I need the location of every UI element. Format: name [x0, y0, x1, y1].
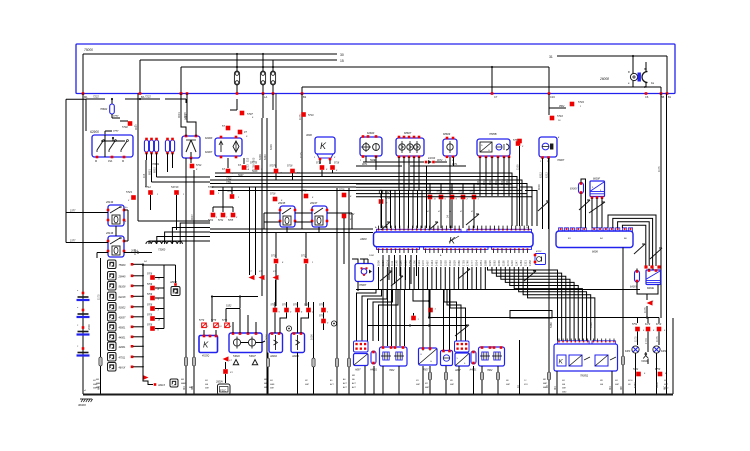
- svg-text:42001: 42001: [119, 346, 127, 349]
- svg-text:BB: BB: [661, 96, 665, 99]
- diode A6013: [143, 374, 179, 387]
- wire lamp grounds: [648, 318, 673, 394]
- svg-text:5734: 5734: [578, 100, 584, 104]
- svg-text:44001: 44001: [119, 337, 127, 340]
- connector 6479 r2: [645, 323, 655, 332]
- svg-text:56108: 56108: [119, 286, 127, 289]
- pin stubs col above: [383, 255, 417, 284]
- bus 325: [367, 324, 467, 326]
- svg-text:2000V: 2000V: [215, 381, 223, 384]
- svg-text:K: K: [203, 341, 209, 350]
- wire 1712 1705 drops: [246, 118, 268, 394]
- svg-text:1175: 1175: [643, 307, 647, 313]
- svg-text:5047: 5047: [238, 174, 244, 177]
- wire drop B2: [301, 87, 307, 99]
- wire left ground drops: [96, 158, 196, 394]
- lamp 6480R: [653, 332, 667, 395]
- svg-text:7602: 7602: [389, 369, 395, 372]
- svg-text:4/112: 4/112: [536, 250, 542, 253]
- wire drop 1175 mid: [298, 94, 302, 230]
- bus 5048: [215, 170, 500, 173]
- connector 5718 low: [271, 232, 284, 306]
- svg-text:1025: 1025: [488, 260, 492, 266]
- svg-text:G: G: [430, 361, 432, 363]
- svg-text:5723: 5723: [126, 190, 132, 194]
- svg-text:6479: 6479: [645, 323, 651, 326]
- svg-text:2000: 2000: [87, 324, 91, 330]
- svg-text:41C60: 41C60: [428, 157, 436, 160]
- connector 5748: [301, 190, 314, 200]
- wire drop BB1: [661, 56, 672, 99]
- lamp 6480L: [625, 332, 639, 395]
- svg-text:5026: 5026: [370, 159, 376, 162]
- wire bus 15: [140, 59, 344, 63]
- connector 5760 drop: [517, 139, 522, 144]
- ecu relay 3000: [306, 133, 336, 160]
- svg-text:7777: 7777: [113, 130, 119, 133]
- wire 7222 row: [86, 95, 186, 104]
- wire glow taps: [149, 223, 210, 244]
- wire 1175 right: [657, 94, 661, 319]
- svg-text:115: 115: [142, 173, 146, 178]
- connector grid B: [455, 341, 470, 352]
- connector 5702: [120, 121, 136, 129]
- connector 5723: [126, 190, 136, 202]
- relay 26437: [309, 201, 328, 227]
- svg-text:31: 31: [549, 55, 553, 59]
- wire drop BA: [139, 60, 145, 99]
- connector 5707B: [250, 162, 263, 172]
- svg-text:26437: 26437: [309, 201, 318, 205]
- svg-text:6X00Y: 6X00Y: [570, 188, 578, 191]
- svg-text:6600F: 6600F: [593, 178, 601, 181]
- svg-text:A8460: A8460: [169, 281, 178, 284]
- wire drop C16: [548, 67, 556, 99]
- diode 70602: [100, 99, 120, 118]
- wire feed: [181, 66, 549, 68]
- svg-text:1032: 1032: [369, 255, 375, 257]
- svg-text:1888: 1888: [484, 260, 488, 266]
- svg-text:5718: 5718: [448, 191, 454, 194]
- wire 1577 b: [66, 213, 108, 243]
- bus upper 7702: [212, 186, 356, 188]
- pump A6002 b: [291, 332, 305, 358]
- control unit 7805Q: [554, 339, 618, 378]
- wire 1100: [516, 146, 520, 226]
- svg-text:6240: 6240: [263, 154, 267, 160]
- connector ladder 5706: [142, 264, 164, 332]
- bus 289: [356, 289, 640, 291]
- immobilizer 2000V: [215, 356, 233, 394]
- svg-text:4015Q: 4015Q: [202, 355, 209, 358]
- svg-text:A697: A697: [454, 369, 461, 372]
- svg-text:A697: A697: [354, 369, 361, 372]
- battery 2000 column: [77, 94, 92, 395]
- wire 1577 trunk: [66, 99, 86, 242]
- svg-text:5716: 5716: [339, 189, 345, 192]
- svg-text:5712: 5712: [459, 191, 465, 194]
- sensor C42Y: [379, 190, 392, 228]
- wire right to ground: [663, 94, 667, 395]
- wires mid ground drops: [264, 188, 357, 394]
- connector grid A: [354, 341, 369, 352]
- svg-text:9661: 9661: [184, 114, 188, 120]
- svg-text:1333: 1333: [417, 260, 421, 266]
- warning triangles: [233, 360, 257, 365]
- svg-text:5707: 5707: [247, 112, 253, 116]
- svg-text:A6002: A6002: [269, 355, 278, 358]
- wire 7777 stub: [105, 130, 119, 135]
- connector 5471C: [171, 185, 185, 230]
- svg-text:9001: 9001: [177, 112, 181, 118]
- svg-text:6852: 6852: [153, 167, 157, 173]
- svg-text:LA: LA: [264, 95, 267, 99]
- wire ignition leftdrop: [86, 103, 105, 157]
- sensor A8460: [164, 265, 180, 296]
- module 7805B: [477, 132, 510, 158]
- ignition switch 26300: [182, 135, 200, 160]
- connector 5707 row b: [238, 158, 250, 171]
- relay 26134: [105, 200, 128, 226]
- svg-text:5712: 5712: [145, 185, 151, 189]
- svg-text:K: K: [320, 141, 327, 151]
- svg-text:1175: 1175: [655, 336, 659, 342]
- svg-text:46/XX: 46/XX: [119, 367, 126, 370]
- svg-text:5776: 5776: [222, 320, 228, 322]
- connector 5760: [513, 138, 524, 148]
- svg-text:AVT: AVT: [342, 382, 348, 385]
- connector 6750 r3: [656, 324, 666, 332]
- wire bundle to 7805Q: [488, 267, 595, 341]
- svg-text:1481: 1481: [435, 260, 439, 266]
- svg-text:5716: 5716: [557, 114, 563, 118]
- wire 9071: [356, 163, 466, 166]
- relay 26136: [105, 231, 125, 257]
- wire nested U right: [608, 215, 656, 266]
- relay 26435: [277, 201, 296, 227]
- svg-text:7607: 7607: [423, 369, 429, 372]
- svg-text:6212: 6212: [539, 172, 543, 178]
- svg-text:53007: 53007: [249, 355, 256, 358]
- wire drops 68607: [366, 156, 454, 228]
- connector 5714: [190, 158, 202, 171]
- svg-text:1136: 1136: [501, 260, 505, 266]
- svg-text:5718: 5718: [270, 193, 276, 196]
- capsule A4001 a: [369, 351, 378, 372]
- svg-text:9007: 9007: [134, 124, 138, 130]
- svg-text:FDC: FDC: [220, 388, 227, 392]
- svg-text:5732: 5732: [218, 220, 224, 222]
- ignition supply switch 62900: [90, 130, 133, 163]
- svg-text:6239: 6239: [269, 144, 273, 150]
- svg-text:1099: 1099: [497, 260, 501, 266]
- wire bus 31: [549, 55, 667, 59]
- connector 9T: [222, 125, 248, 138]
- module A697 left: [354, 354, 369, 372]
- connector 5700b: [227, 187, 240, 199]
- glow control 40150: [199, 330, 218, 358]
- connector 5718 kbox b: [330, 160, 340, 173]
- svg-text:5748: 5748: [301, 190, 307, 193]
- connector 5712 low: [301, 232, 314, 306]
- svg-text:5460: 5460: [589, 322, 593, 328]
- wire 1577 a: [66, 210, 108, 213]
- wire drop: [180, 67, 183, 95]
- svg-text:73000: 73000: [158, 248, 166, 252]
- svg-text:1814: 1814: [475, 260, 479, 266]
- svg-text:1284: 1284: [519, 260, 523, 266]
- svg-text:5718: 5718: [316, 163, 322, 165]
- wire fuse pair drop: [263, 94, 276, 119]
- resistor 6A00Y second: [630, 269, 647, 295]
- svg-text:1629: 1629: [452, 260, 456, 266]
- svg-text:47511: 47511: [119, 357, 126, 360]
- svg-text:62900: 62900: [90, 130, 99, 134]
- svg-text:1577: 1577: [70, 240, 76, 243]
- connector pair 66 right: [644, 265, 660, 268]
- wire ignition feeds: [177, 92, 196, 136]
- svg-text:M1: M1: [425, 383, 428, 385]
- svg-text:5480: 5480: [549, 322, 553, 328]
- svg-text:15: 15: [340, 59, 344, 63]
- fuse box 75000: [76, 44, 675, 94]
- svg-text:6200F: 6200F: [205, 136, 213, 140]
- svg-text:A6013: A6013: [157, 384, 166, 387]
- svg-text:C6: C6: [645, 95, 649, 99]
- connector 5718 mid: [270, 193, 283, 203]
- svg-text:1577: 1577: [70, 210, 76, 213]
- svg-text:26435: 26435: [277, 201, 286, 205]
- sensor 6600F: [590, 178, 605, 229]
- connector row 5718/5712 above ECU: [426, 183, 480, 228]
- svg-text:5152: 5152: [226, 305, 232, 308]
- svg-text:C7: C7: [494, 95, 498, 99]
- svg-text:MAD: MAD: [664, 387, 669, 390]
- wire 26134-26136 link: [116, 210, 128, 241]
- wire 296 junction: [211, 280, 276, 322]
- svg-text:5718: 5718: [287, 165, 293, 168]
- svg-text:M4: M4: [608, 386, 612, 390]
- idle valve 62600: [360, 131, 382, 162]
- battery 26008: [599, 62, 655, 89]
- svg-text:5471C: 5471C: [171, 185, 179, 189]
- injector rail 68607: [396, 131, 424, 162]
- svg-text:1000: 1000: [377, 260, 381, 266]
- svg-text:6851: 6851: [148, 169, 152, 175]
- comb connectors 5724 5732 5705: [208, 187, 238, 222]
- resistor 6A00Y: [570, 179, 586, 228]
- wire bus 30: [83, 53, 344, 57]
- ground circles mid: [286, 321, 336, 331]
- ground 72000: [641, 332, 648, 364]
- sensor 6600E second: [646, 269, 661, 291]
- svg-text:1175: 1175: [97, 294, 101, 300]
- svg-text:AVT: AVT: [342, 386, 348, 389]
- svg-text:6750: 6750: [656, 324, 662, 326]
- wire 78067 feeds: [352, 259, 368, 291]
- wire drop C6: [645, 87, 663, 99]
- svg-text:40037: 40037: [119, 317, 127, 320]
- svg-text:29945: 29945: [118, 276, 127, 279]
- svg-text:MAB: MAB: [270, 383, 275, 386]
- svg-text:AVT: AVT: [351, 382, 357, 385]
- svg-text:72000: 72000: [641, 360, 648, 363]
- svg-text:30: 30: [340, 53, 344, 57]
- pump A6002 a: [269, 332, 283, 358]
- connector 5716 mid: [339, 189, 352, 199]
- svg-text:7805B: 7805B: [489, 132, 497, 136]
- svg-text:6480: 6480: [625, 350, 631, 353]
- wire corridor ECU to right: [356, 184, 532, 226]
- svg-text:1555: 1555: [443, 260, 447, 266]
- connector 5710: [301, 112, 314, 117]
- svg-text:M4: M4: [553, 386, 557, 390]
- svg-text:6A00Y: 6A00Y: [630, 286, 638, 289]
- ground bus 30000: [78, 390, 673, 407]
- svg-text:7222: 7222: [93, 95, 99, 99]
- svg-text:1666: 1666: [457, 260, 461, 266]
- svg-text:70601: 70601: [152, 162, 160, 166]
- svg-text:53002: 53002: [119, 307, 127, 310]
- connector 5718 row: [287, 165, 300, 181]
- svg-text:7222: 7222: [145, 95, 151, 99]
- wire staircase to ECU: [500, 173, 537, 226]
- connector 5716 top: [549, 94, 584, 122]
- connector row 5754: [271, 304, 330, 325]
- svg-text:MAB: MAB: [181, 382, 186, 385]
- svg-text:6450: 6450: [655, 382, 659, 388]
- wire 2671d: [97, 250, 152, 259]
- svg-text:76007: 76007: [557, 158, 565, 162]
- svg-text:1358: 1358: [528, 260, 532, 266]
- svg-text:M8: M8: [619, 386, 623, 390]
- wire drop 9007: [134, 94, 138, 188]
- svg-text:1703: 1703: [461, 260, 465, 266]
- svg-text:7602: 7602: [487, 369, 493, 372]
- svg-text:75000: 75000: [84, 48, 93, 52]
- svg-text:A4001: A4001: [369, 369, 378, 372]
- ECU A600: [359, 226, 533, 257]
- svg-text:1175: 1175: [657, 166, 661, 172]
- svg-text:1247: 1247: [515, 260, 519, 266]
- svg-text:9502: 9502: [559, 105, 565, 108]
- svg-text:6750: 6750: [655, 369, 661, 371]
- connector 5707 row a: [222, 158, 234, 175]
- svg-text:26136: 26136: [105, 231, 114, 235]
- svg-text:9071: 9071: [362, 163, 368, 166]
- svg-text:115: 115: [246, 157, 250, 162]
- fuse F2: [260, 53, 267, 99]
- connector 5707B b: [270, 110, 283, 180]
- bus 7702: [210, 178, 510, 181]
- bus 7701: [210, 181, 515, 184]
- svg-text:1444: 1444: [430, 260, 434, 266]
- variable arrows: [380, 200, 662, 336]
- svg-text:AVT: AVT: [351, 386, 357, 389]
- svg-text:a1: a1: [84, 390, 86, 392]
- svg-text:9072: 9072: [437, 159, 443, 162]
- svg-text:A6002: A6002: [291, 355, 300, 358]
- glow plugs 73000: [146, 241, 182, 251]
- svg-text:1592: 1592: [448, 260, 452, 266]
- svg-text:5710: 5710: [308, 114, 314, 117]
- diode 6600E drop: [643, 285, 658, 318]
- svg-text:7701: 7701: [226, 181, 232, 184]
- svg-text:6239: 6239: [258, 154, 262, 160]
- svg-text:5714: 5714: [196, 164, 202, 167]
- injection connector 6606: [556, 228, 633, 254]
- svg-text:1321: 1321: [524, 260, 528, 266]
- svg-text:1000: 1000: [310, 334, 314, 340]
- svg-text:62218: 62218: [119, 296, 127, 299]
- fuse F3: [270, 60, 275, 95]
- svg-text:1175: 1175: [299, 152, 303, 158]
- wire battery feed: [302, 56, 661, 87]
- wire relay links: [264, 213, 352, 232]
- svg-text:A600: A600: [359, 237, 367, 241]
- svg-text:5752: 5752: [633, 369, 639, 371]
- svg-text:68609: 68609: [443, 132, 451, 136]
- ignition coil 7602 b: [479, 346, 505, 372]
- injector 68609: [443, 132, 457, 162]
- svg-text:1296: 1296: [412, 260, 416, 266]
- svg-text:MAB: MAB: [93, 383, 98, 386]
- svg-text:1111: 1111: [390, 260, 394, 266]
- svg-text:3000: 3000: [306, 133, 312, 137]
- connector 5752 r1: [632, 324, 645, 332]
- svg-text:5779: 5779: [199, 320, 205, 322]
- wire drop M1: [82, 54, 88, 99]
- svg-text:5705: 5705: [228, 220, 234, 222]
- indicator icon column: [108, 260, 148, 374]
- connector 5718 below ecu: [409, 290, 437, 327]
- svg-text:9071: 9071: [452, 163, 458, 166]
- svg-text:5712: 5712: [470, 191, 476, 194]
- svg-text:K: K: [449, 236, 456, 246]
- svg-text:26008: 26008: [599, 77, 609, 81]
- bus line 228: [210, 228, 373, 230]
- bus 317 lamps: [428, 301, 659, 319]
- ignition coil 7602 a: [380, 346, 408, 372]
- wire labels speckle: [97, 114, 660, 388]
- capsule A4001 b: [469, 351, 478, 372]
- connector 5712 mid: [342, 213, 355, 264]
- svg-text:MC: MC: [305, 380, 309, 382]
- wire 7805Q grounds: [553, 371, 612, 394]
- connector 5712 left: [145, 185, 159, 210]
- diode row K7: [249, 271, 279, 280]
- svg-text:5718: 5718: [437, 191, 443, 194]
- wire drop C7: [491, 67, 498, 99]
- svg-text:62007: 62007: [205, 150, 213, 154]
- svg-text:3000: 3000: [265, 334, 269, 340]
- fuse F1: [234, 53, 239, 95]
- svg-text:5718: 5718: [334, 163, 340, 165]
- sensor 7607 a: [419, 347, 438, 371]
- svg-text:26134: 26134: [105, 200, 114, 204]
- connector 5700 grp: [208, 186, 220, 195]
- svg-text:6480: 6480: [661, 350, 667, 353]
- svg-text:1740: 1740: [466, 260, 470, 266]
- wire staircase below ECU left: [357, 290, 399, 342]
- svg-text:30000: 30000: [78, 403, 86, 407]
- svg-text:75000: 75000: [119, 264, 127, 267]
- svg-text:1506: 1506: [133, 249, 137, 255]
- svg-text:105: 105: [252, 157, 256, 162]
- svg-text:1173: 1173: [506, 260, 510, 266]
- svg-text:5752: 5752: [632, 324, 638, 326]
- svg-text:1518: 1518: [439, 260, 443, 266]
